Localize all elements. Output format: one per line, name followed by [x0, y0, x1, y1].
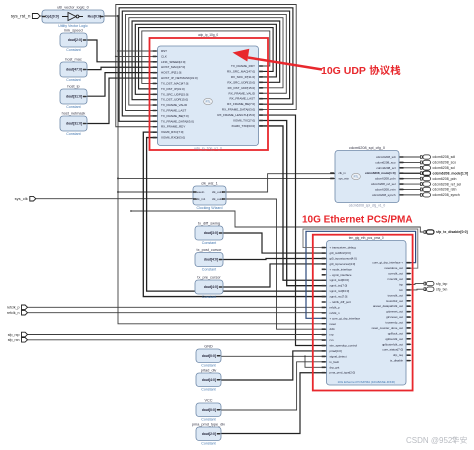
- svg-text:util_vector_logic_0: util_vector_logic_0: [57, 6, 88, 10]
- svg-text:sys_rstn: sys_rstn: [339, 176, 350, 180]
- svg-text:RX_SRC_UDP[15:0]: RX_SRC_UDP[15:0]: [227, 80, 255, 84]
- svg-text:Constant: Constant: [66, 132, 80, 136]
- svg-text:clk_in: clk_in: [339, 171, 347, 175]
- svg-text:host_netmask: host_netmask: [62, 112, 86, 116]
- svg-text:sfp_rxp: sfp_rxp: [8, 333, 20, 337]
- svg-text:dout[2:0]: dout[2:0]: [68, 38, 82, 42]
- svg-text:qplllock_out: qplllock_out: [388, 331, 403, 335]
- svg-text:TX_DST_UDP[15:0]: TX_DST_UDP[15:0]: [161, 98, 188, 102]
- svg-text:xgmii_rxd[63:0]: xgmii_rxd[63:0]: [330, 289, 350, 293]
- svg-text:prtad_div: prtad_div: [201, 369, 217, 373]
- svg-text:rxrecclk_out: rxrecclk_out: [387, 277, 403, 281]
- svg-text:cdcm6208_scl: cdcm6208_scl: [376, 166, 396, 170]
- svg-text:sfp_tx_disable[0:0]: sfp_tx_disable[0:0]: [436, 230, 468, 234]
- svg-text:CSDN @9527: CSDN @9527: [406, 436, 457, 445]
- svg-text:cdcm6208_spi_cfg_0: cdcm6208_spi_cfg_0: [349, 146, 385, 150]
- svg-text:signal_detect: signal_detect: [330, 354, 347, 358]
- svg-text:XGMII_TXC[7:0]: XGMII_TXC[7:0]: [233, 119, 255, 123]
- svg-text:cdcm6208_sdi: cdcm6208_sdi: [433, 155, 456, 159]
- svg-text:dout[47:0]: dout[47:0]: [66, 68, 82, 72]
- svg-text:cdcm6208_rstn: cdcm6208_rstn: [433, 188, 457, 192]
- svg-text:gttxreset_out: gttxreset_out: [386, 310, 403, 314]
- svg-text:RX_FRAME_RDY: RX_FRAME_RDY: [161, 125, 185, 129]
- svg-text:Constant: Constant: [202, 295, 216, 299]
- svg-text:dout[31:0]: dout[31:0]: [66, 95, 82, 99]
- svg-text:Constant: Constant: [66, 78, 80, 82]
- svg-text:dout[0:0]: dout[0:0]: [202, 408, 216, 412]
- svg-text:dout[3:0]: dout[3:0]: [204, 231, 218, 235]
- svg-text:rxn: rxn: [330, 338, 334, 342]
- svg-text:RX_FRAME_LAST: RX_FRAME_LAST: [229, 97, 255, 101]
- svg-text:cdcm6208_spi_cfg_v1_0: cdcm6208_spi_cfg_v1_0: [349, 204, 386, 208]
- svg-text:RTL: RTL: [206, 100, 211, 104]
- svg-text:TX_FRAME_LAST: TX_FRAME_LAST: [161, 109, 186, 113]
- svg-text:− xgmii_interface: − xgmii_interface: [330, 273, 352, 277]
- svg-text:tx_post_cursor: tx_post_cursor: [197, 248, 223, 252]
- svg-text:cdcm6208_pdn: cdcm6208_pdn: [433, 177, 457, 181]
- svg-text:HOST_MAC[47:0]: HOST_MAC[47:0]: [161, 65, 185, 69]
- svg-text:RST: RST: [161, 49, 167, 53]
- svg-text:+ mode_interface: + mode_interface: [330, 267, 353, 271]
- svg-text:CLK: CLK: [161, 54, 167, 58]
- svg-text:+ transceiver_debug: + transceiver_debug: [330, 246, 357, 250]
- svg-text:cdcm6208_ref_sel: cdcm6208_ref_sel: [433, 182, 462, 186]
- svg-text:link_speed: link_speed: [64, 29, 82, 33]
- svg-text:cdcm6208_synch: cdcm6208_synch: [372, 193, 396, 197]
- svg-text:xgmii_txd[63:0]: xgmii_txd[63:0]: [330, 278, 350, 282]
- svg-text:reset_counter_done_out: reset_counter_done_out: [372, 326, 404, 330]
- svg-text:refclk_p: refclk_p: [7, 306, 20, 310]
- svg-text:host_mac: host_mac: [65, 58, 82, 62]
- svg-text:txusrclk_out: txusrclk_out: [388, 293, 404, 297]
- svg-text:ten_gig_eth_pcs_pma_0: ten_gig_eth_pcs_pma_0: [349, 236, 384, 240]
- svg-text:cdcm6208_synch: cdcm6208_synch: [433, 193, 460, 197]
- svg-text:TX_FRAME_BE[7:0]: TX_FRAME_BE[7:0]: [161, 114, 189, 118]
- svg-text:TX_FRAME_DATA[63:0]: TX_FRAME_DATA[63:0]: [161, 119, 194, 123]
- svg-text:dout[4:0]: dout[4:0]: [204, 258, 218, 262]
- svg-text:sys_clk: sys_clk: [15, 196, 28, 201]
- svg-text:clk_wiz_1: clk_wiz_1: [201, 182, 217, 186]
- svg-text:Constant: Constant: [201, 388, 215, 392]
- svg-text:sfp_rxn: sfp_rxn: [8, 338, 20, 342]
- svg-text:HOST_IP[31:0]: HOST_IP[31:0]: [161, 71, 182, 75]
- svg-text:clk_out1: clk_out1: [212, 190, 224, 194]
- svg-text:qplloutrefclk_out: qplloutrefclk_out: [382, 342, 403, 346]
- svg-text:txuserrdy_out: txuserrdy_out: [385, 321, 403, 325]
- svg-text:clk_out2: clk_out2: [212, 197, 224, 201]
- svg-text:Constant: Constant: [201, 442, 215, 446]
- svg-text:10G UDP: 10G UDP: [321, 65, 366, 77]
- svg-text:cdcm6208_rstn: cdcm6208_rstn: [375, 187, 396, 191]
- svg-text:TX_DST_MAC[47:0]: TX_DST_MAC[47:0]: [161, 81, 189, 85]
- svg-text:RX_SRC_IP[31:0]: RX_SRC_IP[31:0]: [231, 75, 255, 79]
- svg-text:clk_in1: clk_in1: [196, 197, 206, 201]
- svg-text:Constant: Constant: [202, 268, 216, 272]
- svg-text:txusrclk2_out: txusrclk2_out: [386, 299, 403, 303]
- svg-text:refclk_n: refclk_n: [7, 311, 20, 315]
- svg-text:core_status[7:0]: core_status[7:0]: [382, 348, 403, 352]
- svg-text:dout[4:0]: dout[4:0]: [204, 285, 218, 289]
- svg-text:host_ip: host_ip: [67, 85, 79, 89]
- svg-text:dout[4:0]: dout[4:0]: [202, 378, 216, 382]
- svg-text:dout[31:0]: dout[31:0]: [66, 122, 82, 126]
- svg-text:sim_speedup_control: sim_speedup_control: [330, 344, 358, 348]
- svg-text:RX_FRAME_LENGTH[15:0]: RX_FRAME_LENGTH[15:0]: [217, 113, 255, 117]
- svg-text:tx_fault: tx_fault: [330, 360, 340, 364]
- svg-text:cdcm6208_mode[1:0]: cdcm6208_mode[1:0]: [365, 171, 396, 175]
- svg-text:HOST_IP_NETMASK[31:0]: HOST_IP_NETMASK[31:0]: [161, 76, 198, 80]
- svg-text:Res[0:0]: Res[0:0]: [88, 15, 101, 19]
- svg-text:GND: GND: [204, 345, 213, 349]
- svg-text:core_gt_drp_interface +: core_gt_drp_interface +: [372, 261, 403, 265]
- svg-text:Clocking Wizard: Clocking Wizard: [197, 206, 223, 210]
- svg-text:tx_diff_swing: tx_diff_swing: [198, 222, 220, 226]
- svg-text:+ core_gt_drp_interface: + core_gt_drp_interface: [330, 316, 361, 320]
- svg-text:pma_pmd_type[2:0]: pma_pmd_type[2:0]: [330, 371, 356, 375]
- svg-text:sfp_txn: sfp_txn: [436, 287, 447, 291]
- svg-text:sys_rst_n: sys_rst_n: [11, 13, 31, 18]
- svg-text:TX_FRAME_VALID: TX_FRAME_VALID: [161, 103, 188, 107]
- svg-text:RX_FRAME_DATA[63:0]: RX_FRAME_DATA[63:0]: [222, 108, 255, 112]
- svg-text:gt0_txdiffctrl[3:0]: gt0_txdiffctrl[3:0]: [330, 251, 351, 255]
- svg-text:Constant: Constant: [66, 105, 80, 109]
- svg-text:RTL: RTL: [354, 175, 359, 179]
- svg-text:Constant: Constant: [202, 241, 216, 245]
- svg-text:drp_req: drp_req: [393, 353, 403, 357]
- svg-text:udp_ip_10g_v1_0: udp_ip_10g_v1_0: [194, 146, 222, 150]
- svg-text:coreclk_out: coreclk_out: [388, 272, 403, 276]
- svg-text:qplloutclk_out: qplloutclk_out: [385, 337, 403, 341]
- svg-text:TX_DST_IP[31:0]: TX_DST_IP[31:0]: [161, 87, 185, 91]
- svg-text:10G Ethernet PCS/PMA (10GBASE-: 10G Ethernet PCS/PMA (10GBASE-R/KR): [337, 380, 395, 384]
- svg-text:cdcm6208_scl: cdcm6208_scl: [433, 166, 456, 170]
- svg-text:cdcm6208_sco: cdcm6208_sco: [375, 160, 396, 164]
- svg-text:gtrxreset_out: gtrxreset_out: [386, 315, 403, 319]
- svg-text:XGMII_RXC[7:0]: XGMII_RXC[7:0]: [161, 130, 184, 134]
- svg-text:drp_gnt: drp_gnt: [330, 365, 340, 369]
- svg-text:Constant: Constant: [201, 364, 215, 368]
- svg-text:Op1[0:0]: Op1[0:0]: [45, 15, 59, 19]
- svg-text:dout[0:0]: dout[0:0]: [202, 354, 216, 358]
- svg-text:gt0_txpostcursor[4:0]: gt0_txpostcursor[4:0]: [330, 256, 357, 260]
- svg-text:cdcm6208_ref_sel: cdcm6208_ref_sel: [371, 182, 396, 186]
- svg-text:prtad[4:0]: prtad[4:0]: [330, 349, 342, 353]
- svg-text:udp_ip_10g_0: udp_ip_10g_0: [198, 33, 218, 37]
- svg-text:txp: txp: [399, 282, 403, 286]
- svg-text:Constant: Constant: [201, 418, 215, 422]
- svg-text:cdcm6208_mode[1:0]: cdcm6208_mode[1:0]: [433, 171, 469, 175]
- svg-text:resetn: resetn: [196, 190, 205, 194]
- svg-text:dout[2:0]: dout[2:0]: [202, 432, 216, 436]
- svg-text:− refclk_diff_port: − refclk_diff_port: [330, 300, 352, 304]
- svg-text:Constant: Constant: [66, 48, 80, 52]
- svg-text:resetdone_out: resetdone_out: [385, 266, 404, 270]
- svg-text:xgmii_txc[7:0]: xgmii_txc[7:0]: [330, 284, 348, 288]
- svg-text:cdcm6208_sco: cdcm6208_sco: [433, 161, 457, 165]
- svg-text:areset_datapathclk_out: areset_datapathclk_out: [373, 304, 403, 308]
- svg-text:dclk: dclk: [330, 327, 336, 331]
- svg-text:sfp_txp: sfp_txp: [436, 282, 447, 286]
- svg-text:refclk_p: refclk_p: [330, 305, 341, 309]
- svg-text:reset: reset: [330, 322, 337, 326]
- svg-text:xgmii_rxc[7:0]: xgmii_rxc[7:0]: [330, 295, 348, 299]
- svg-text:RX_SRC_MAC[47:0]: RX_SRC_MAC[47:0]: [227, 69, 255, 73]
- svg-text:10G Ethernet PCS/PMA: 10G Ethernet PCS/PMA: [302, 215, 413, 226]
- svg-text:RX_FRAME_VALID: RX_FRAME_VALID: [229, 91, 256, 95]
- svg-text:pma_pmd_type_div: pma_pmd_type_div: [192, 423, 225, 427]
- svg-text:TX_SRC_UDP[15:0]: TX_SRC_UDP[15:0]: [161, 92, 189, 96]
- svg-text:XGMII_RXD[63:0]: XGMII_RXD[63:0]: [161, 136, 185, 140]
- svg-text:RX_DST_UDP[15:0]: RX_DST_UDP[15:0]: [228, 86, 256, 90]
- svg-text:gt0_txprecursor[4:0]: gt0_txprecursor[4:0]: [330, 262, 356, 266]
- svg-text:rxp: rxp: [330, 333, 334, 337]
- svg-text:LINK_SPEED[2:0]: LINK_SPEED[2:0]: [161, 60, 186, 64]
- svg-text:tx_disable: tx_disable: [390, 359, 403, 363]
- svg-text:tx_pre_cursor: tx_pre_cursor: [197, 276, 221, 280]
- svg-text:XGMII_TXD[63:0]: XGMII_TXD[63:0]: [231, 124, 255, 128]
- svg-text:cdcm6208_pdn: cdcm6208_pdn: [375, 177, 396, 181]
- svg-text:VCC: VCC: [204, 399, 212, 403]
- svg-text:refclk_n: refclk_n: [330, 311, 341, 315]
- svg-text:TX_FRAME_RDY: TX_FRAME_RDY: [231, 64, 255, 68]
- svg-text:txn: txn: [399, 288, 403, 292]
- svg-text:RX_FRAME_BE[7:0]: RX_FRAME_BE[7:0]: [227, 102, 255, 106]
- svg-text:cdcm6208_sdi: cdcm6208_sdi: [376, 155, 396, 159]
